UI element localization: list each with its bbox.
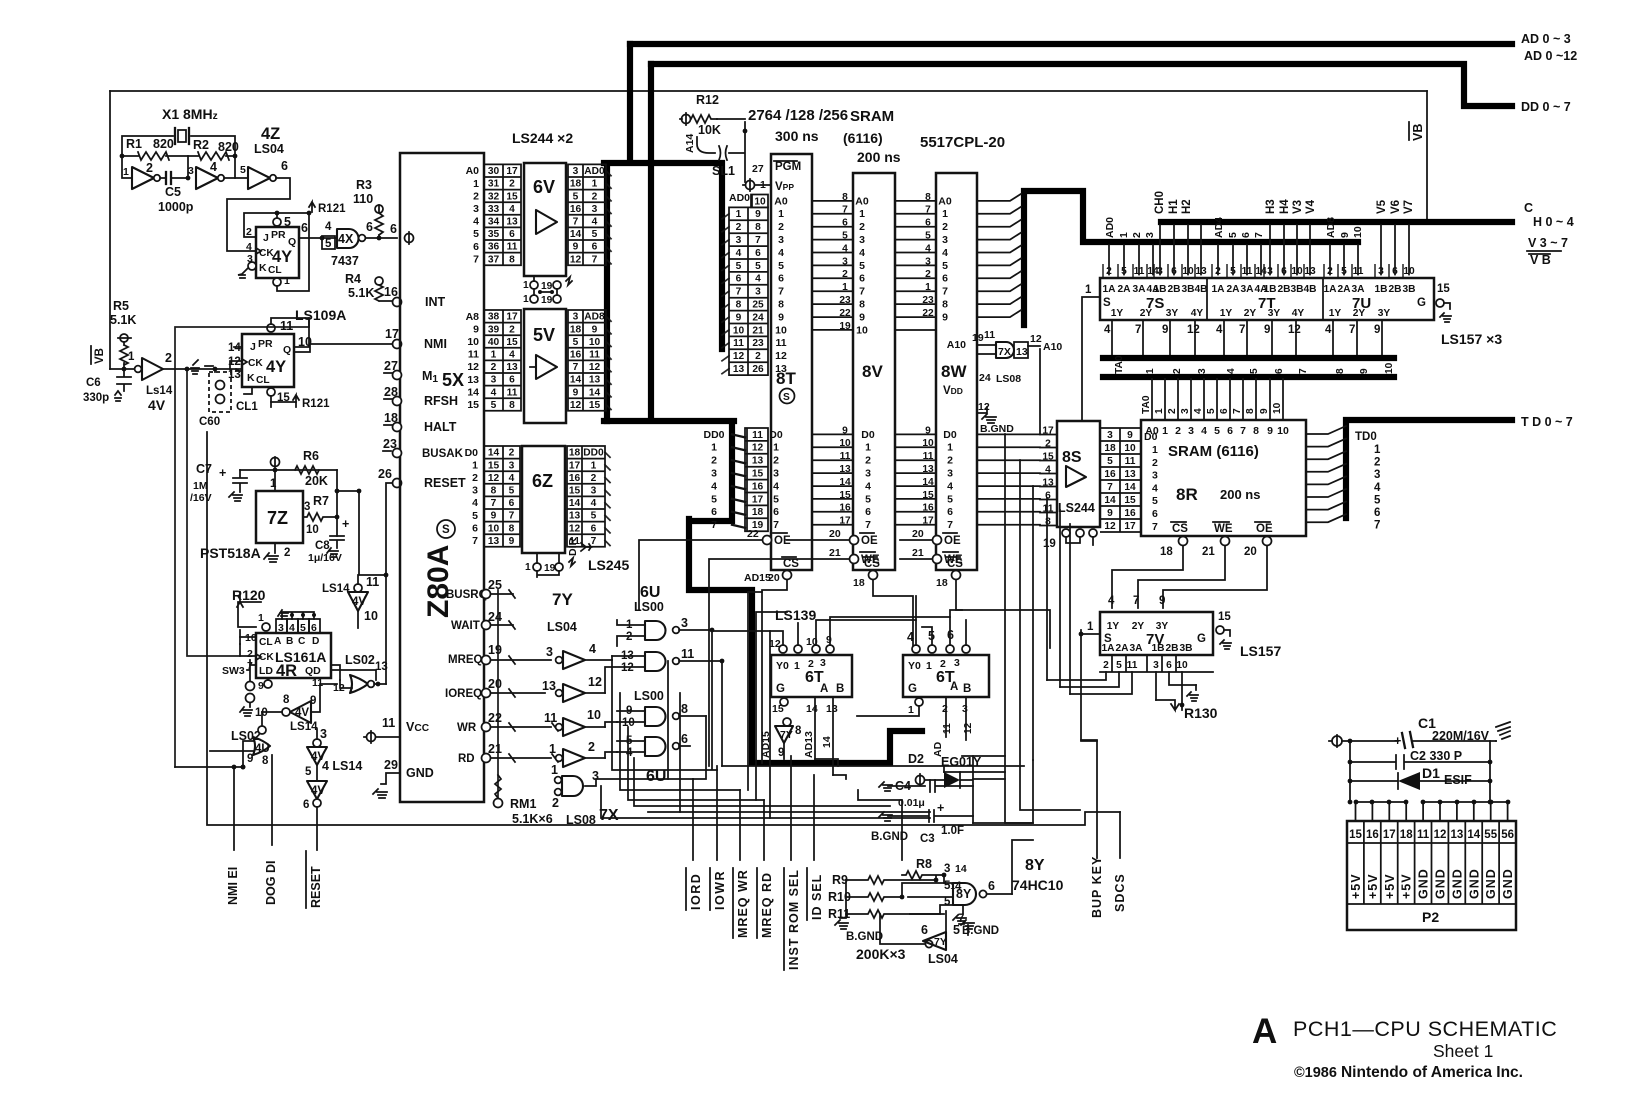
svg-text:V4: V4 bbox=[1305, 199, 1317, 214]
svg-text:3B: 3B bbox=[1181, 284, 1194, 295]
svg-text:6: 6 bbox=[472, 522, 478, 534]
svg-text:GND: GND bbox=[406, 766, 434, 780]
svg-text:CS: CS bbox=[864, 558, 880, 570]
svg-text:12: 12 bbox=[570, 400, 582, 411]
svg-text:QD: QD bbox=[305, 665, 321, 677]
svg-text:AD0: AD0 bbox=[1104, 217, 1116, 238]
svg-text:1: 1 bbox=[773, 442, 779, 454]
svg-text:8: 8 bbox=[736, 300, 742, 311]
svg-text:6: 6 bbox=[509, 375, 515, 386]
svg-text:5.1K: 5.1K bbox=[348, 286, 374, 300]
svg-text:3Y: 3Y bbox=[1166, 308, 1179, 319]
svg-text:4: 4 bbox=[859, 247, 865, 259]
svg-text:+: + bbox=[1394, 734, 1401, 748]
svg-text:4: 4 bbox=[1108, 595, 1115, 607]
svg-text:13: 13 bbox=[752, 456, 764, 467]
svg-text:10: 10 bbox=[467, 336, 479, 348]
border frame left bbox=[109, 91, 111, 369]
svg-text:4: 4 bbox=[907, 630, 914, 644]
nand 6U-2 LS00 bbox=[645, 652, 666, 671]
svg-text:+5V: +5V bbox=[1366, 873, 1380, 899]
svg-text:3: 3 bbox=[278, 622, 284, 634]
svg-text:VDD: VDD bbox=[943, 385, 963, 397]
svg-text:8: 8 bbox=[491, 486, 497, 497]
svg-text:14: 14 bbox=[589, 387, 601, 398]
wire QD out bbox=[331, 665, 340, 680]
svg-text:3: 3 bbox=[773, 468, 779, 480]
pin RESET bbox=[393, 479, 402, 488]
wire DD0-7 out table bbox=[567, 446, 605, 547]
svg-text:C2 330 P: C2 330 P bbox=[1410, 749, 1462, 763]
svg-text:12: 12 bbox=[769, 638, 781, 650]
svg-text:7437: 7437 bbox=[331, 254, 359, 268]
svg-text:12: 12 bbox=[963, 722, 974, 734]
svg-text:2: 2 bbox=[859, 221, 865, 233]
svg-text:3Y: 3Y bbox=[1378, 308, 1391, 319]
svg-text:10: 10 bbox=[488, 523, 500, 534]
svg-text:5: 5 bbox=[1116, 660, 1122, 671]
wire 8W address fan to feeder bbox=[977, 194, 1021, 317]
svg-text:HALT: HALT bbox=[424, 420, 457, 434]
svg-text:V B: V B bbox=[1530, 253, 1551, 267]
svg-text:LS244: LS244 bbox=[1058, 501, 1095, 515]
diode D1 ESIF bbox=[1350, 773, 1490, 789]
svg-text:5: 5 bbox=[592, 229, 598, 240]
svg-text:8V: 8V bbox=[862, 362, 883, 381]
svg-text:12: 12 bbox=[1104, 521, 1116, 532]
svg-text:24: 24 bbox=[979, 372, 991, 384]
sram 8W 5517 bbox=[936, 173, 977, 570]
svg-text:2: 2 bbox=[1374, 457, 1380, 469]
svg-text:S: S bbox=[783, 392, 790, 403]
wire D0-7 pin table bbox=[484, 446, 520, 547]
nand 7X LS08 bbox=[555, 777, 562, 784]
svg-text:1B: 1B bbox=[1263, 284, 1276, 295]
svg-text:A0: A0 bbox=[774, 195, 788, 207]
svg-text:14: 14 bbox=[806, 703, 818, 715]
svg-text:8R: 8R bbox=[1176, 485, 1198, 504]
svg-text:27: 27 bbox=[752, 163, 764, 175]
svg-text:15: 15 bbox=[467, 399, 479, 411]
svg-text:14: 14 bbox=[569, 498, 581, 509]
svg-text:29: 29 bbox=[384, 758, 398, 772]
svg-text:18: 18 bbox=[1160, 546, 1173, 558]
svg-text:MREQ WR: MREQ WR bbox=[736, 869, 750, 938]
svg-text:7: 7 bbox=[1232, 408, 1243, 414]
svg-text:AD13: AD13 bbox=[803, 731, 815, 758]
svg-text:5: 5 bbox=[473, 228, 479, 240]
svg-text:3: 3 bbox=[591, 486, 597, 497]
svg-text:18: 18 bbox=[936, 577, 948, 589]
svg-text:5: 5 bbox=[865, 493, 871, 505]
svg-text:8: 8 bbox=[1245, 408, 1256, 414]
svg-text:R3: R3 bbox=[356, 178, 372, 192]
svg-text:1: 1 bbox=[865, 442, 871, 454]
svg-text:19: 19 bbox=[1043, 538, 1056, 550]
svg-text:4: 4 bbox=[942, 247, 948, 259]
svg-text:LD: LD bbox=[259, 665, 273, 677]
svg-text:27: 27 bbox=[384, 359, 398, 373]
svg-text:3B: 3B bbox=[1290, 284, 1303, 295]
svg-text:11: 11 bbox=[569, 536, 580, 547]
svg-text:15: 15 bbox=[506, 337, 518, 348]
svg-text:2Y: 2Y bbox=[1132, 621, 1145, 632]
inverter 7Y WR bbox=[556, 724, 563, 731]
border frame top bbox=[110, 90, 1427, 92]
svg-text:DD0: DD0 bbox=[703, 429, 724, 441]
svg-text:12: 12 bbox=[467, 361, 479, 373]
svg-text:35: 35 bbox=[488, 229, 500, 240]
bus DD vertical bbox=[604, 64, 922, 763]
svg-text:5: 5 bbox=[755, 261, 761, 272]
svg-text:5: 5 bbox=[942, 260, 948, 272]
svg-text:10: 10 bbox=[306, 524, 319, 536]
svg-text:4: 4 bbox=[1325, 324, 1332, 336]
svg-text:H 0 ~ 4: H 0 ~ 4 bbox=[1533, 215, 1574, 229]
pin 1 FF1 bottom bbox=[273, 278, 281, 286]
svg-text:8: 8 bbox=[859, 299, 865, 311]
svg-text:AD0: AD0 bbox=[729, 192, 750, 204]
svg-text:6: 6 bbox=[1227, 425, 1233, 437]
svg-text:10: 10 bbox=[733, 325, 745, 336]
svg-text:©1986 Nintendo of America Inc.: ©1986 Nintendo of America Inc. bbox=[1294, 1064, 1523, 1081]
svg-text:SL1: SL1 bbox=[712, 164, 735, 178]
svg-text:13: 13 bbox=[826, 703, 838, 715]
svg-text:12: 12 bbox=[1030, 333, 1042, 345]
svg-text:INT: INT bbox=[425, 295, 446, 309]
svg-text:GND: GND bbox=[1450, 868, 1464, 899]
svg-text:C8: C8 bbox=[315, 540, 330, 552]
svg-text:7: 7 bbox=[947, 519, 953, 531]
svg-text:2764 /128 /256: 2764 /128 /256 bbox=[748, 107, 848, 124]
svg-text:4: 4 bbox=[246, 241, 252, 253]
svg-text:IOREQ: IOREQ bbox=[445, 688, 482, 700]
svg-text:4: 4 bbox=[1104, 324, 1111, 336]
svg-text:11: 11 bbox=[544, 711, 557, 725]
svg-text:Z80A: Z80A bbox=[422, 545, 455, 618]
svg-text:13: 13 bbox=[506, 362, 518, 373]
wire osc feedback to FF clock bbox=[227, 178, 290, 251]
svg-text:AD8: AD8 bbox=[1325, 217, 1337, 238]
svg-text:6: 6 bbox=[681, 732, 688, 746]
svg-text:NMI: NMI bbox=[424, 337, 447, 351]
svg-text:R121: R121 bbox=[302, 398, 330, 410]
svg-text:7: 7 bbox=[1349, 324, 1355, 336]
svg-text:GND: GND bbox=[1501, 868, 1515, 899]
svg-text:11: 11 bbox=[1127, 660, 1138, 671]
svg-text:7: 7 bbox=[942, 286, 948, 298]
svg-text:A10: A10 bbox=[947, 339, 966, 351]
svg-text:LS02: LS02 bbox=[345, 653, 375, 667]
decoder 6T-2 LS139 bbox=[903, 655, 989, 697]
svg-text:MREQ: MREQ bbox=[448, 654, 483, 666]
svg-text:5: 5 bbox=[573, 191, 579, 202]
svg-text:R2: R2 bbox=[193, 138, 209, 152]
svg-text:9: 9 bbox=[509, 536, 515, 547]
svg-text:4 LS14: 4 LS14 bbox=[322, 759, 362, 773]
svg-text:C6: C6 bbox=[86, 377, 101, 389]
svg-text:33: 33 bbox=[488, 204, 500, 215]
svg-text:INST ROM SEL: INST ROM SEL bbox=[787, 869, 801, 970]
svg-text:13: 13 bbox=[1451, 829, 1464, 841]
svg-text:12: 12 bbox=[588, 675, 602, 689]
svg-text:12: 12 bbox=[589, 362, 601, 373]
resistor R121 arrow bbox=[309, 202, 315, 212]
svg-text:2A: 2A bbox=[1337, 284, 1351, 295]
svg-text:6: 6 bbox=[859, 273, 865, 285]
svg-text:6: 6 bbox=[755, 248, 761, 259]
svg-text:RD: RD bbox=[458, 753, 475, 765]
svg-text:1: 1 bbox=[947, 442, 953, 454]
svg-text:7: 7 bbox=[773, 519, 779, 531]
svg-text:23: 23 bbox=[752, 338, 764, 349]
svg-text:3: 3 bbox=[778, 234, 784, 246]
svg-text:200 ns: 200 ns bbox=[857, 149, 901, 165]
svg-text:1: 1 bbox=[926, 660, 932, 672]
svg-text:1: 1 bbox=[859, 208, 865, 220]
svg-text:2: 2 bbox=[773, 455, 779, 467]
svg-text:12: 12 bbox=[1434, 829, 1447, 841]
svg-text:A10: A10 bbox=[1043, 341, 1062, 353]
svg-text:19: 19 bbox=[972, 332, 984, 344]
svg-text:LS109A: LS109A bbox=[295, 307, 346, 323]
svg-text:1μ/16V: 1μ/16V bbox=[308, 552, 342, 564]
svg-text:Q: Q bbox=[283, 344, 291, 356]
inverter 4Z-2 bbox=[196, 167, 218, 189]
svg-text:32: 32 bbox=[488, 191, 500, 202]
svg-text:3: 3 bbox=[942, 234, 948, 246]
svg-text:3: 3 bbox=[865, 468, 871, 480]
svg-text:A8: A8 bbox=[466, 311, 480, 323]
svg-text:6: 6 bbox=[711, 506, 717, 518]
svg-text:2Y: 2Y bbox=[1353, 308, 1366, 319]
svg-text:11: 11 bbox=[366, 575, 379, 589]
svg-text:3: 3 bbox=[711, 468, 717, 480]
svg-text:1.0F: 1.0F bbox=[941, 825, 964, 837]
svg-text:13: 13 bbox=[733, 364, 745, 375]
svg-text:7X: 7X bbox=[998, 346, 1011, 358]
svg-text:LS04: LS04 bbox=[928, 952, 958, 966]
svg-text:A: A bbox=[950, 681, 958, 693]
svg-text:8: 8 bbox=[795, 725, 802, 737]
wire bottom rail bbox=[207, 432, 1120, 825]
svg-text:T D 0 ~ 7: T D 0 ~ 7 bbox=[1521, 415, 1573, 429]
svg-text:5: 5 bbox=[859, 260, 865, 272]
svg-text:AD15: AD15 bbox=[760, 731, 772, 758]
svg-text:9: 9 bbox=[736, 312, 742, 323]
svg-text:LS14: LS14 bbox=[322, 583, 350, 595]
svg-text:4: 4 bbox=[591, 498, 597, 509]
svg-text:5: 5 bbox=[778, 260, 784, 272]
svg-text:18: 18 bbox=[1400, 829, 1413, 841]
svg-text:7Y: 7Y bbox=[552, 590, 573, 609]
svg-text:11: 11 bbox=[942, 723, 953, 734]
svg-text:B.GND: B.GND bbox=[980, 423, 1014, 435]
svg-text:3: 3 bbox=[1144, 232, 1156, 238]
svg-text:7: 7 bbox=[778, 286, 784, 298]
svg-text:3: 3 bbox=[944, 863, 950, 875]
resistor R121 arrow2 bbox=[293, 395, 299, 407]
svg-text:DD0: DD0 bbox=[583, 448, 604, 459]
svg-text:4: 4 bbox=[473, 216, 479, 228]
svg-text:V6: V6 bbox=[1390, 200, 1402, 214]
svg-text:1Y: 1Y bbox=[1220, 308, 1233, 319]
svg-text:2: 2 bbox=[711, 455, 717, 467]
svg-text:11: 11 bbox=[775, 337, 786, 349]
rom 8T 2764 bbox=[771, 154, 812, 570]
wire AD8-15 out table bbox=[568, 310, 606, 411]
svg-text:10: 10 bbox=[364, 609, 378, 623]
svg-text:74HC10: 74HC10 bbox=[1012, 877, 1064, 893]
svg-text:3: 3 bbox=[491, 375, 497, 386]
svg-text:RESET: RESET bbox=[424, 476, 466, 490]
svg-text:2: 2 bbox=[509, 324, 515, 335]
svg-text:4: 4 bbox=[755, 274, 761, 285]
svg-text:14: 14 bbox=[467, 386, 479, 398]
svg-text:2: 2 bbox=[942, 221, 948, 233]
svg-text:9: 9 bbox=[826, 634, 832, 646]
svg-text:LS04: LS04 bbox=[547, 620, 577, 634]
svg-text:4: 4 bbox=[773, 480, 779, 492]
svg-text:1: 1 bbox=[1152, 444, 1158, 456]
svg-text:+5V: +5V bbox=[1383, 873, 1397, 899]
svg-text:2: 2 bbox=[247, 648, 253, 660]
pin INT bbox=[393, 298, 402, 307]
svg-text:V5: V5 bbox=[1376, 199, 1388, 214]
svg-text:(6116): (6116) bbox=[843, 130, 883, 146]
svg-text:LS245: LS245 bbox=[588, 557, 629, 573]
svg-text:3A: 3A bbox=[1351, 284, 1365, 295]
svg-text:TA0: TA0 bbox=[1141, 395, 1152, 414]
svg-text:9: 9 bbox=[1264, 324, 1270, 336]
svg-text:D: D bbox=[312, 636, 319, 647]
svg-text:5: 5 bbox=[1249, 368, 1260, 374]
svg-text:18: 18 bbox=[752, 507, 764, 518]
svg-text:24: 24 bbox=[752, 312, 764, 323]
svg-text:V7: V7 bbox=[1403, 200, 1415, 214]
svg-text:2: 2 bbox=[591, 473, 597, 484]
svg-text:K: K bbox=[259, 262, 267, 274]
svg-text:H1: H1 bbox=[1168, 199, 1180, 214]
bus CH0~4 V3~7 bbox=[1161, 219, 1512, 225]
svg-text:17: 17 bbox=[1383, 829, 1396, 841]
svg-text:6: 6 bbox=[473, 241, 479, 253]
svg-text:LS139: LS139 bbox=[775, 607, 816, 623]
svg-text:6: 6 bbox=[778, 273, 784, 285]
svg-text:6: 6 bbox=[592, 242, 598, 253]
svg-text:5: 5 bbox=[300, 622, 306, 634]
svg-text:BUSAK: BUSAK bbox=[422, 448, 464, 460]
svg-text:2A: 2A bbox=[1115, 643, 1129, 654]
svg-text:3Y: 3Y bbox=[1268, 308, 1281, 319]
svg-text:14: 14 bbox=[228, 342, 241, 354]
svg-text:22: 22 bbox=[488, 711, 502, 725]
svg-text:VB: VB bbox=[1411, 124, 1425, 141]
svg-text:15: 15 bbox=[589, 400, 601, 411]
svg-text:R130: R130 bbox=[1184, 705, 1218, 721]
svg-text:4: 4 bbox=[592, 217, 598, 228]
svg-text:IOWR: IOWR bbox=[713, 870, 727, 910]
svg-text:4U: 4U bbox=[255, 743, 270, 755]
sram 8R 6116 bbox=[1141, 420, 1306, 536]
svg-text:18: 18 bbox=[570, 324, 582, 335]
svg-text:3: 3 bbox=[1153, 660, 1159, 671]
svg-text:C5: C5 bbox=[165, 185, 181, 199]
svg-text:5: 5 bbox=[736, 261, 742, 272]
svg-text:3: 3 bbox=[1197, 368, 1208, 374]
svg-text:ID SEL: ID SEL bbox=[810, 874, 824, 920]
svg-text:4Y: 4Y bbox=[1191, 308, 1204, 319]
svg-text:2: 2 bbox=[1175, 425, 1181, 437]
svg-text:3B: 3B bbox=[1402, 284, 1415, 295]
wire left rails bbox=[175, 318, 309, 767]
svg-text:VPP: VPP bbox=[775, 181, 794, 193]
svg-text:6: 6 bbox=[736, 274, 742, 285]
svg-text:LS00: LS00 bbox=[634, 689, 664, 703]
svg-text:4V: 4V bbox=[311, 785, 325, 797]
svg-text:16: 16 bbox=[569, 473, 581, 484]
svg-text:5: 5 bbox=[773, 493, 779, 505]
svg-text:14: 14 bbox=[570, 229, 582, 240]
svg-text:4X: 4X bbox=[338, 232, 354, 246]
svg-text:16: 16 bbox=[1366, 829, 1379, 841]
svg-text:6: 6 bbox=[366, 220, 373, 234]
svg-text:21: 21 bbox=[752, 325, 764, 336]
svg-text:D0: D0 bbox=[465, 447, 479, 459]
svg-text:1: 1 bbox=[591, 460, 597, 471]
svg-text:12: 12 bbox=[570, 254, 582, 265]
svg-text:12: 12 bbox=[1288, 324, 1301, 336]
svg-text:4: 4 bbox=[325, 221, 332, 233]
svg-text:MREQ RD: MREQ RD bbox=[760, 872, 774, 938]
svg-text:19: 19 bbox=[488, 643, 502, 657]
buffer 5V LS244 bbox=[524, 309, 566, 423]
svg-text:4Z: 4Z bbox=[261, 125, 280, 143]
svg-text:1M: 1M bbox=[193, 480, 208, 492]
svg-text:Y0: Y0 bbox=[776, 660, 789, 672]
svg-text:11: 11 bbox=[681, 647, 694, 661]
svg-text:PCH1—CPU SCHEMATIC: PCH1—CPU SCHEMATIC bbox=[1293, 1017, 1557, 1041]
svg-text:10: 10 bbox=[1124, 443, 1136, 454]
svg-text:7: 7 bbox=[1239, 324, 1245, 336]
svg-text:5: 5 bbox=[509, 486, 515, 497]
svg-text:7: 7 bbox=[491, 498, 497, 509]
svg-text:Ls14: Ls14 bbox=[146, 385, 173, 397]
svg-text:2Y: 2Y bbox=[1244, 308, 1257, 319]
svg-text:20: 20 bbox=[488, 677, 502, 691]
svg-text:1: 1 bbox=[1154, 408, 1165, 414]
svg-text:7: 7 bbox=[755, 235, 761, 246]
svg-text:9: 9 bbox=[942, 311, 948, 323]
svg-text:4: 4 bbox=[210, 160, 217, 174]
svg-text:5: 5 bbox=[1214, 425, 1220, 437]
svg-text:4: 4 bbox=[1201, 425, 1207, 437]
ground B.GND 200Kx3 bbox=[835, 880, 848, 929]
svg-text:4: 4 bbox=[1216, 324, 1223, 336]
svg-text:LS14: LS14 bbox=[290, 721, 318, 733]
svg-text:13: 13 bbox=[542, 679, 556, 693]
svg-text:3: 3 bbox=[546, 645, 553, 659]
svg-text:1: 1 bbox=[1162, 425, 1168, 437]
svg-text:4V: 4V bbox=[295, 707, 309, 719]
svg-text:4V: 4V bbox=[148, 397, 166, 413]
svg-text:6: 6 bbox=[1152, 508, 1158, 520]
wire NMI EI bbox=[233, 767, 235, 850]
svg-text:23: 23 bbox=[383, 437, 397, 451]
svg-text:4: 4 bbox=[289, 622, 295, 634]
svg-text:4: 4 bbox=[472, 497, 478, 509]
svg-text:30: 30 bbox=[488, 166, 500, 177]
